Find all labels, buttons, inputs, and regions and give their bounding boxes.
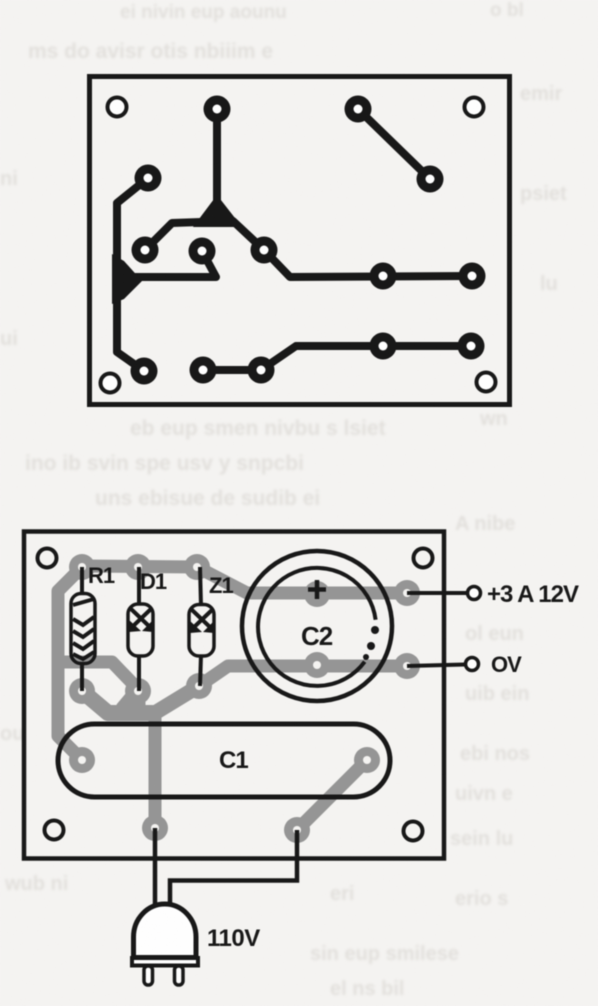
pad G2 (D1 top) [125, 554, 151, 580]
wire: left vertical lower to bottom pad [117, 292, 144, 371]
plug prong left [144, 966, 153, 985]
pad P14 [458, 333, 485, 360]
trace: Z1 top to +12V rail [197, 567, 407, 593]
zener Z1 lead bottom [200, 655, 201, 686]
diode D1 lead top [137, 567, 141, 605]
wire: upper-left pad to left vertical [117, 178, 148, 268]
pad P12 [248, 357, 275, 384]
pad P1 [204, 96, 231, 123]
trace: D1 bottom pad into band [122, 690, 137, 708]
mounting hole top-left [38, 549, 57, 568]
mounting hole top-right [465, 98, 484, 117]
pad G10 (0V) [394, 653, 420, 679]
pad P10 [131, 358, 158, 385]
wire to 0V terminal [407, 665, 465, 667]
zener Z1 lead top [200, 567, 201, 606]
resistor R1 lead top [80, 567, 84, 592]
wire: left mains pad to plug [153, 828, 158, 906]
pad P2 [345, 96, 372, 123]
wire: bottom row horizontal [261, 346, 471, 370]
trace: R1 bottom to band [82, 691, 152, 713]
pad G1 (R1 top) [69, 554, 95, 580]
mounting hole bottom-left [101, 374, 120, 393]
wire: isolated diagonal top-right [358, 109, 430, 179]
pad P9 [459, 263, 486, 290]
trace: R1 top down left side to C1 left pad [58, 567, 82, 760]
capacitor C2 outer circle [242, 551, 392, 701]
wire: junction blob to middle pad [125, 251, 216, 277]
plug prong right [175, 966, 184, 985]
trace: left rail branch to D1 bottom pad [59, 662, 137, 688]
trace: D1 bottom into band [131, 691, 146, 710]
pad G13 (mains left) [142, 815, 168, 841]
terminal +12V [468, 587, 481, 600]
board outline [90, 77, 510, 405]
pad G4 (R1 bottom) [69, 678, 95, 704]
pad P7 [251, 237, 278, 264]
capacitor C2 inner circle with dotted gap [258, 568, 376, 686]
mounting hole bottom-right [477, 373, 496, 392]
resistor R1 lead bottom [80, 663, 84, 691]
terminal 0V [466, 658, 479, 671]
mounting hole bottom-left [45, 821, 64, 840]
wire: right mains pad to plug [170, 830, 297, 906]
mounting hole bottom-right [404, 822, 423, 841]
junction Y triangle [193, 195, 242, 227]
mounting hole top-right [414, 549, 433, 568]
pad G6 (Z1 bottom) [186, 673, 212, 699]
wire: stem from top pad to Y junction [213, 109, 221, 204]
pad G8 (C2 minus) [304, 652, 330, 678]
board outline (component side) [24, 532, 444, 859]
trace: Z1 bottom into band [158, 686, 199, 711]
pad P13 [370, 333, 397, 360]
pad P6 [189, 238, 216, 265]
pad G7 (C2 plus) [304, 581, 330, 607]
pad P5 [132, 237, 159, 264]
diode D1 lead bottom [137, 656, 141, 691]
pad G11 (C1 left) [69, 747, 95, 773]
capacitor C1 body [58, 724, 390, 797]
wire: bottom pads link [203, 366, 261, 374]
pad P4 [135, 165, 162, 192]
plus polarity mark [308, 580, 326, 599]
trace: band down to bottom-left pad [149, 713, 162, 828]
wire to +12V terminal [407, 591, 467, 595]
plug base [132, 958, 198, 966]
plug body [134, 904, 197, 958]
dot marks [363, 626, 379, 660]
wire: middle row horizontal [264, 250, 472, 277]
pad P11 [190, 357, 217, 384]
pad P8 [370, 263, 397, 290]
zener Z1 body [189, 605, 214, 657]
wire: Y left branch [145, 222, 201, 250]
pad G14 (mains right) [284, 817, 310, 843]
pad P3 [417, 166, 444, 193]
junction left blob [112, 254, 142, 304]
trace: Z1 bottom to 0V rail [199, 666, 407, 686]
mounting hole top-left [108, 98, 127, 117]
pad G9 (+12V) [394, 580, 420, 606]
diode D1 body [128, 604, 153, 656]
trace: R1 top to D1 top to Z1 top [82, 566, 197, 567]
trace: C1 right pad to bottom-right pad [297, 760, 367, 830]
pad G12 (C1 right) [354, 747, 380, 773]
pad G3 (Z1 top) [184, 554, 210, 580]
resistor R1 body [71, 594, 95, 664]
pad G5 (D1 bottom) [125, 678, 151, 704]
wire: Y right branch [233, 221, 264, 250]
